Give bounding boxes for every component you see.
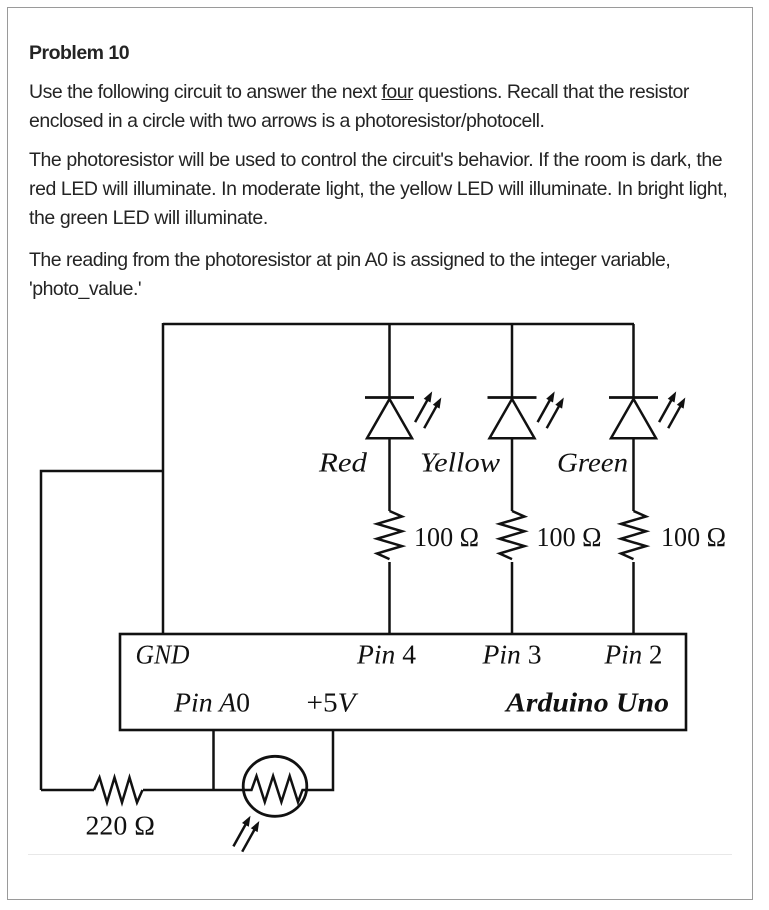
pin label Pin A0 bbox=[173, 688, 250, 718]
svg-text:Yellow: Yellow bbox=[420, 448, 500, 478]
svg-text:Pin 2: Pin 2 bbox=[603, 640, 662, 670]
wire pin A0 bbox=[212, 730, 215, 790]
svg-text:+5V: +5V bbox=[307, 688, 360, 718]
wire green branch upper bbox=[632, 324, 635, 397]
LED D1 emission arrows bbox=[415, 391, 441, 428]
wire red branch lower bbox=[388, 562, 391, 634]
pin label Pin 3 bbox=[481, 640, 541, 670]
svg-text:Pin 3: Pin 3 bbox=[481, 640, 541, 670]
svg-text:Red: Red bbox=[318, 448, 368, 478]
resistor R4 220 ohm bbox=[94, 778, 143, 803]
svg-text:100 Ω: 100 Ω bbox=[414, 522, 479, 552]
Arduino Uno U1 box bbox=[120, 634, 686, 730]
label 100 ohm R3 bbox=[661, 522, 726, 552]
wire green branch mid bbox=[632, 438, 635, 511]
wire red branch upper bbox=[388, 324, 391, 397]
pin label +5V bbox=[307, 688, 360, 718]
LED D3 emission arrows bbox=[659, 391, 685, 428]
LED D1 red bbox=[365, 398, 414, 439]
resistor R1 100 ohm bbox=[377, 511, 402, 559]
label 220 ohm R4 bbox=[86, 811, 156, 841]
label 100 ohm R2 bbox=[537, 522, 602, 552]
svg-text:220 Ω: 220 Ω bbox=[86, 811, 156, 841]
label Yellow bbox=[420, 448, 500, 478]
svg-text:100 Ω: 100 Ω bbox=[661, 522, 726, 552]
wire top rail bbox=[163, 323, 634, 326]
wire red branch mid bbox=[388, 438, 391, 511]
pin label GND bbox=[136, 640, 190, 670]
wire yellow branch mid bbox=[511, 438, 514, 511]
label Arduino Uno bbox=[504, 688, 669, 718]
wire GND vertical bbox=[162, 323, 165, 634]
photoresistor LDR1 bbox=[243, 756, 308, 816]
svg-text:Arduino Uno: Arduino Uno bbox=[504, 688, 669, 718]
svg-text:100 Ω: 100 Ω bbox=[537, 522, 602, 552]
svg-text:Green: Green bbox=[557, 448, 628, 478]
svg-text:GND: GND bbox=[136, 640, 190, 670]
wire +5V bbox=[306, 730, 334, 790]
svg-text:Pin A0: Pin A0 bbox=[173, 688, 250, 718]
photoresistor arrows bbox=[233, 816, 259, 852]
pin label Pin 4 bbox=[356, 640, 417, 670]
wire yellow branch lower bbox=[511, 562, 514, 634]
pin label Pin 2 bbox=[603, 640, 662, 670]
LED D3 green bbox=[609, 398, 658, 439]
resistor R3 100 ohm bbox=[621, 511, 646, 559]
LED D2 emission arrows bbox=[538, 391, 564, 428]
label 100 ohm R1 bbox=[414, 522, 479, 552]
wire yellow branch upper bbox=[511, 324, 514, 397]
wire outer left bbox=[41, 471, 163, 790]
label Green bbox=[557, 448, 628, 478]
wire green branch lower bbox=[632, 562, 635, 634]
resistor R2 100 ohm bbox=[500, 511, 525, 559]
LED D2 yellow bbox=[488, 398, 537, 439]
wire bottom GND to photocell bbox=[41, 789, 245, 792]
label Red bbox=[318, 448, 368, 478]
svg-text:Pin 4: Pin 4 bbox=[356, 640, 417, 670]
